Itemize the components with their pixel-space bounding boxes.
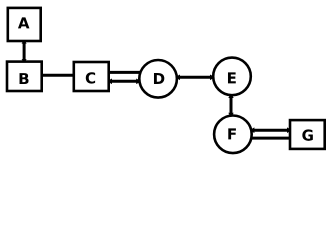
wire C-D double top: [109, 71, 142, 74]
node C: [74, 62, 109, 91]
node F: [214, 116, 252, 154]
wire A-B: [22, 39, 27, 63]
node B: [7, 62, 42, 91]
wire D-E with arrows: [175, 75, 215, 81]
node G: [290, 120, 325, 149]
node D: [139, 60, 177, 98]
wire E-F with arrows: [228, 93, 233, 117]
wire B-C: [42, 74, 74, 77]
node A: [8, 8, 41, 41]
wire F-G double bottom: [252, 137, 291, 140]
node E: [213, 58, 251, 96]
wire C-D double bottom with arrows: [107, 79, 142, 85]
wire F-G double top with arrows: [249, 127, 292, 133]
